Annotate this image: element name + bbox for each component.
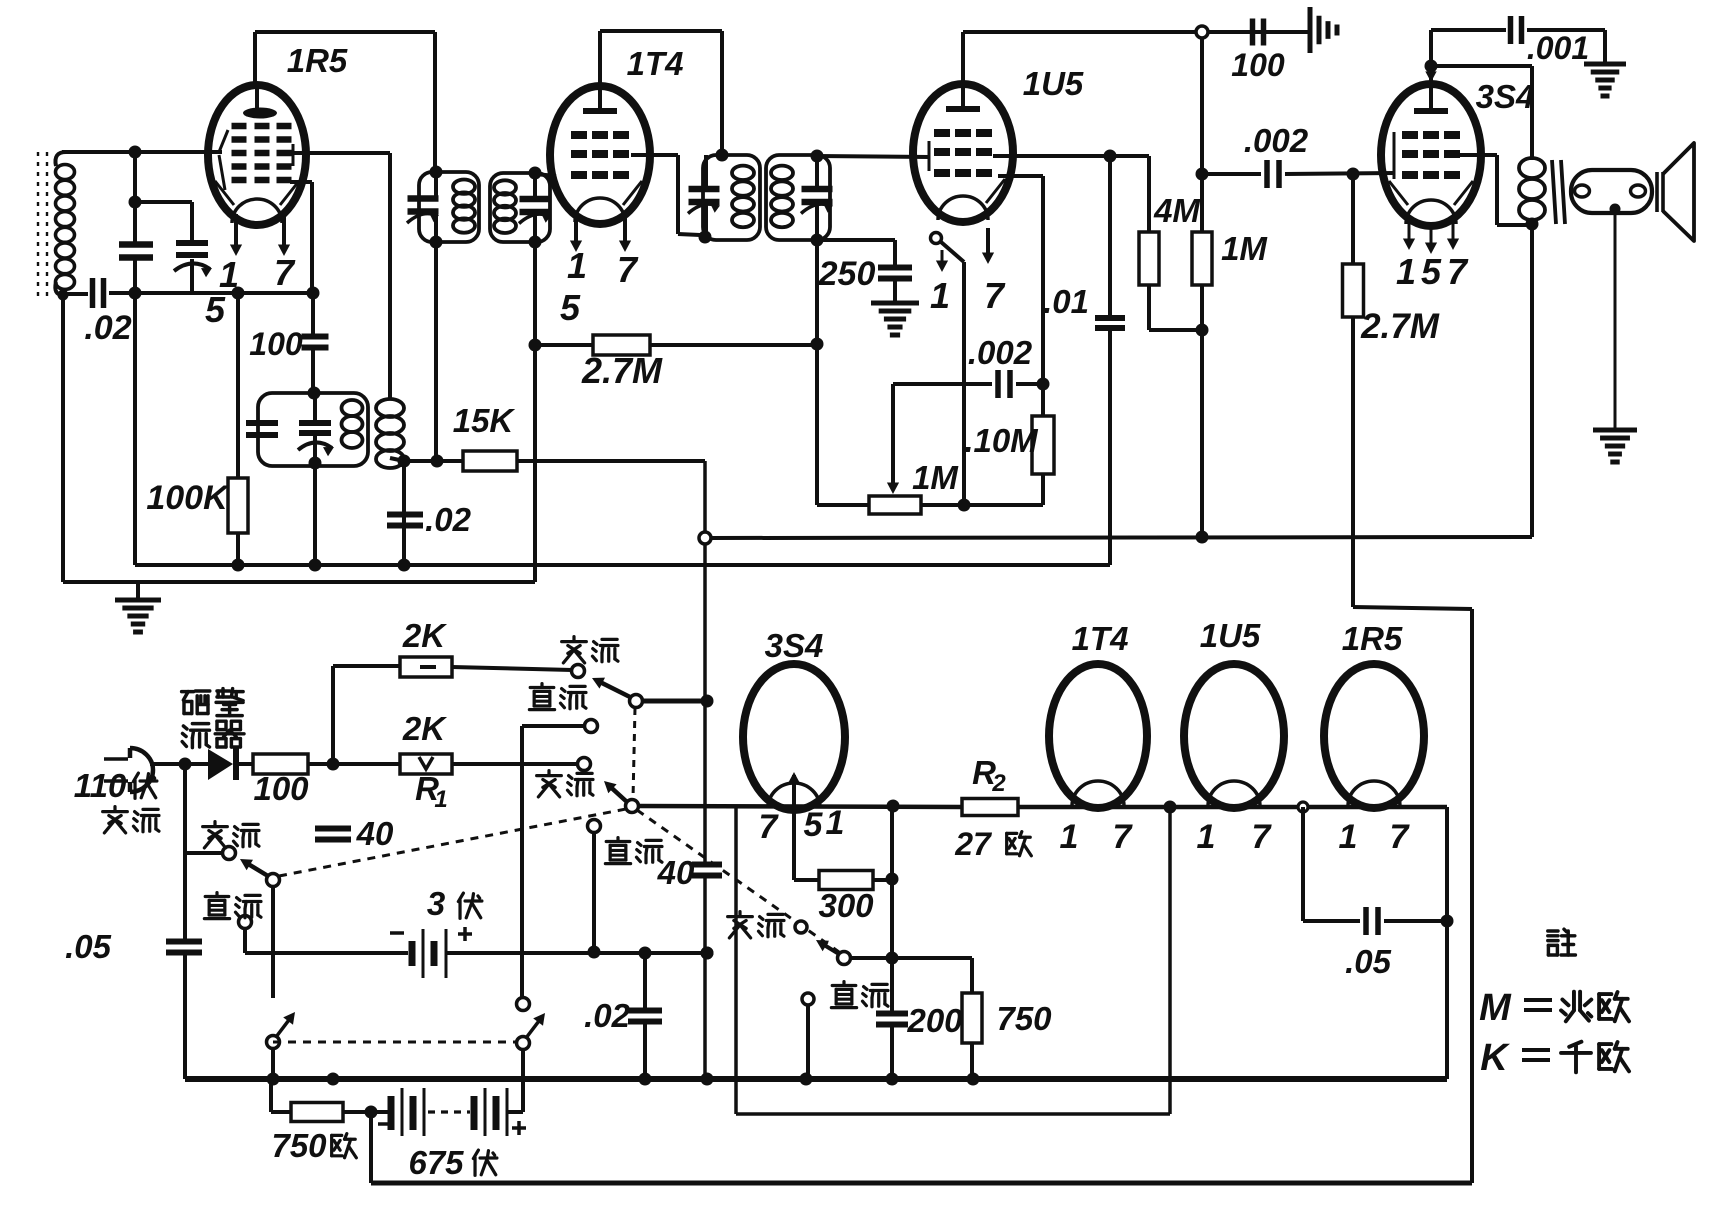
svg-text:100K: 100K [146, 479, 230, 517]
svg-text:2K: 2K [402, 710, 447, 747]
svg-text:1: 1 [1396, 251, 1416, 292]
svg-text:5: 5 [560, 287, 581, 328]
svg-text:.001: .001 [1527, 30, 1589, 66]
svg-text:300: 300 [818, 887, 874, 924]
svg-text:.01: .01 [1043, 283, 1089, 320]
svg-text:1: 1 [1197, 818, 1216, 856]
svg-text:1: 1 [567, 245, 587, 286]
svg-text:2K: 2K [402, 617, 447, 654]
svg-text:7: 7 [759, 808, 780, 846]
svg-text:100: 100 [1231, 47, 1285, 83]
svg-text:3S4: 3S4 [1476, 78, 1535, 115]
svg-text:.05: .05 [1345, 943, 1392, 980]
svg-text:2.7M: 2.7M [581, 350, 663, 391]
svg-text:100: 100 [249, 326, 303, 362]
svg-text:.002: .002 [1244, 122, 1309, 159]
svg-text:1T4: 1T4 [627, 45, 684, 82]
svg-text:250: 250 [818, 255, 876, 293]
svg-text:1U5: 1U5 [1023, 65, 1084, 102]
svg-text:1: 1 [1060, 818, 1079, 856]
svg-text:5: 5 [205, 289, 226, 330]
svg-text:7: 7 [984, 275, 1006, 316]
svg-text:1: 1 [930, 275, 950, 316]
svg-text:1: 1 [826, 804, 845, 842]
svg-text:1R5: 1R5 [1342, 620, 1403, 657]
svg-text:750: 750 [271, 1127, 327, 1164]
svg-text:7: 7 [1390, 818, 1411, 856]
svg-text:7: 7 [1252, 818, 1273, 856]
svg-text:1U5: 1U5 [1200, 617, 1261, 654]
svg-text:.02: .02 [584, 997, 631, 1034]
svg-text:K: K [1480, 1037, 1510, 1079]
svg-text:.05: .05 [65, 928, 112, 965]
svg-text:5: 5 [804, 806, 824, 844]
svg-text:4M: 4M [1153, 192, 1201, 229]
svg-text:7: 7 [1447, 251, 1469, 292]
svg-text:1: 1 [434, 786, 447, 813]
svg-text:.02: .02 [425, 501, 472, 538]
svg-text:27: 27 [954, 826, 993, 862]
svg-text:7: 7 [274, 252, 296, 293]
svg-text:1M: 1M [1221, 230, 1268, 267]
svg-text:200: 200 [906, 1002, 963, 1039]
svg-text:M: M [1479, 987, 1512, 1029]
svg-text:40: 40 [657, 854, 695, 891]
svg-text:.002: .002 [968, 334, 1033, 371]
svg-text:2: 2 [991, 770, 1006, 797]
svg-text:15K: 15K [453, 402, 516, 439]
svg-text:3: 3 [427, 885, 445, 922]
svg-text:7: 7 [617, 249, 639, 290]
svg-text:1: 1 [1339, 818, 1358, 856]
svg-text:1M: 1M [912, 459, 959, 496]
svg-text:1T4: 1T4 [1072, 620, 1129, 657]
svg-text:2.7M: 2.7M [1360, 307, 1440, 346]
svg-text:100: 100 [253, 770, 309, 807]
svg-text:40: 40 [356, 815, 394, 852]
svg-text:.02: .02 [84, 309, 131, 347]
svg-text:1R5: 1R5 [287, 42, 348, 79]
svg-text:750: 750 [996, 1000, 1052, 1037]
svg-text:3S4: 3S4 [765, 627, 824, 664]
svg-text:7: 7 [1113, 818, 1134, 856]
svg-text:110: 110 [74, 767, 127, 804]
svg-text:675: 675 [408, 1144, 464, 1181]
svg-text:.10M: .10M [964, 422, 1039, 459]
svg-text:5: 5 [1421, 251, 1442, 292]
